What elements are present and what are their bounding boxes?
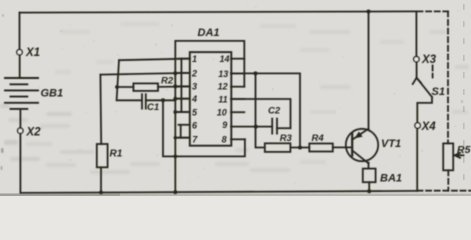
svg-text:BA1: BA1 [380,173,402,185]
svg-text:R2: R2 [161,76,174,87]
svg-text:8: 8 [222,135,227,145]
svg-text:GB1: GB1 [41,88,64,100]
svg-text:13: 13 [218,69,228,79]
svg-text:14: 14 [219,54,229,64]
svg-text:X4: X4 [421,121,437,133]
svg-text:C1: C1 [147,102,159,113]
svg-text:X1: X1 [25,47,40,59]
svg-text:R1: R1 [110,149,123,160]
svg-text:DA1: DA1 [198,27,220,39]
svg-text:VT1: VT1 [381,138,401,150]
svg-text:4: 4 [191,94,197,104]
svg-text:C2: C2 [268,106,281,117]
svg-text:X2: X2 [26,127,42,139]
svg-text:S1: S1 [432,86,445,98]
svg-text:R3: R3 [280,133,293,144]
svg-text:R4: R4 [312,133,325,144]
svg-text:2: 2 [191,68,197,78]
svg-text:12: 12 [218,81,228,91]
svg-text:10: 10 [217,107,227,117]
svg-text:X3: X3 [421,54,437,66]
svg-text:1: 1 [192,54,197,64]
svg-text:3: 3 [192,82,197,92]
svg-text:11: 11 [218,95,227,105]
svg-text:9: 9 [222,120,227,130]
